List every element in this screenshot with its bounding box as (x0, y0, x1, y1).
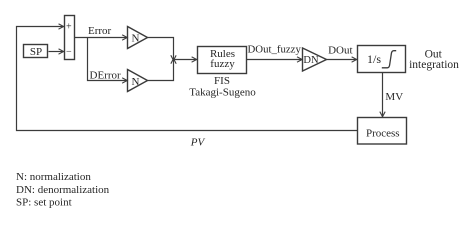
svg-text:1/s: 1/s (367, 52, 381, 66)
svg-text:N: normalization: N: normalization (16, 171, 91, 183)
svg-text:DError: DError (90, 69, 121, 81)
svg-text:DN: denormalization: DN: denormalization (16, 184, 110, 196)
svg-text:DN: DN (303, 55, 319, 66)
svg-text:FIS: FIS (214, 75, 230, 87)
svg-text:−: − (66, 47, 72, 58)
svg-text:SP: set point: SP: set point (16, 197, 72, 209)
svg-text:SP: SP (30, 46, 42, 58)
svg-text:Takagi-Sugeno: Takagi-Sugeno (189, 86, 256, 98)
svg-text:DOut_fuzzy: DOut_fuzzy (248, 44, 302, 56)
svg-text:+: + (66, 22, 72, 33)
svg-text:MV: MV (385, 91, 403, 103)
svg-text:DOut: DOut (328, 45, 352, 57)
svg-text:PV: PV (190, 137, 206, 149)
svg-text:Error: Error (88, 25, 112, 37)
svg-text:fuzzy: fuzzy (210, 58, 235, 70)
svg-text:N: N (132, 76, 140, 88)
svg-text:Process: Process (366, 127, 400, 139)
svg-text:N: N (132, 33, 140, 45)
svg-text:integration: integration (409, 59, 459, 71)
